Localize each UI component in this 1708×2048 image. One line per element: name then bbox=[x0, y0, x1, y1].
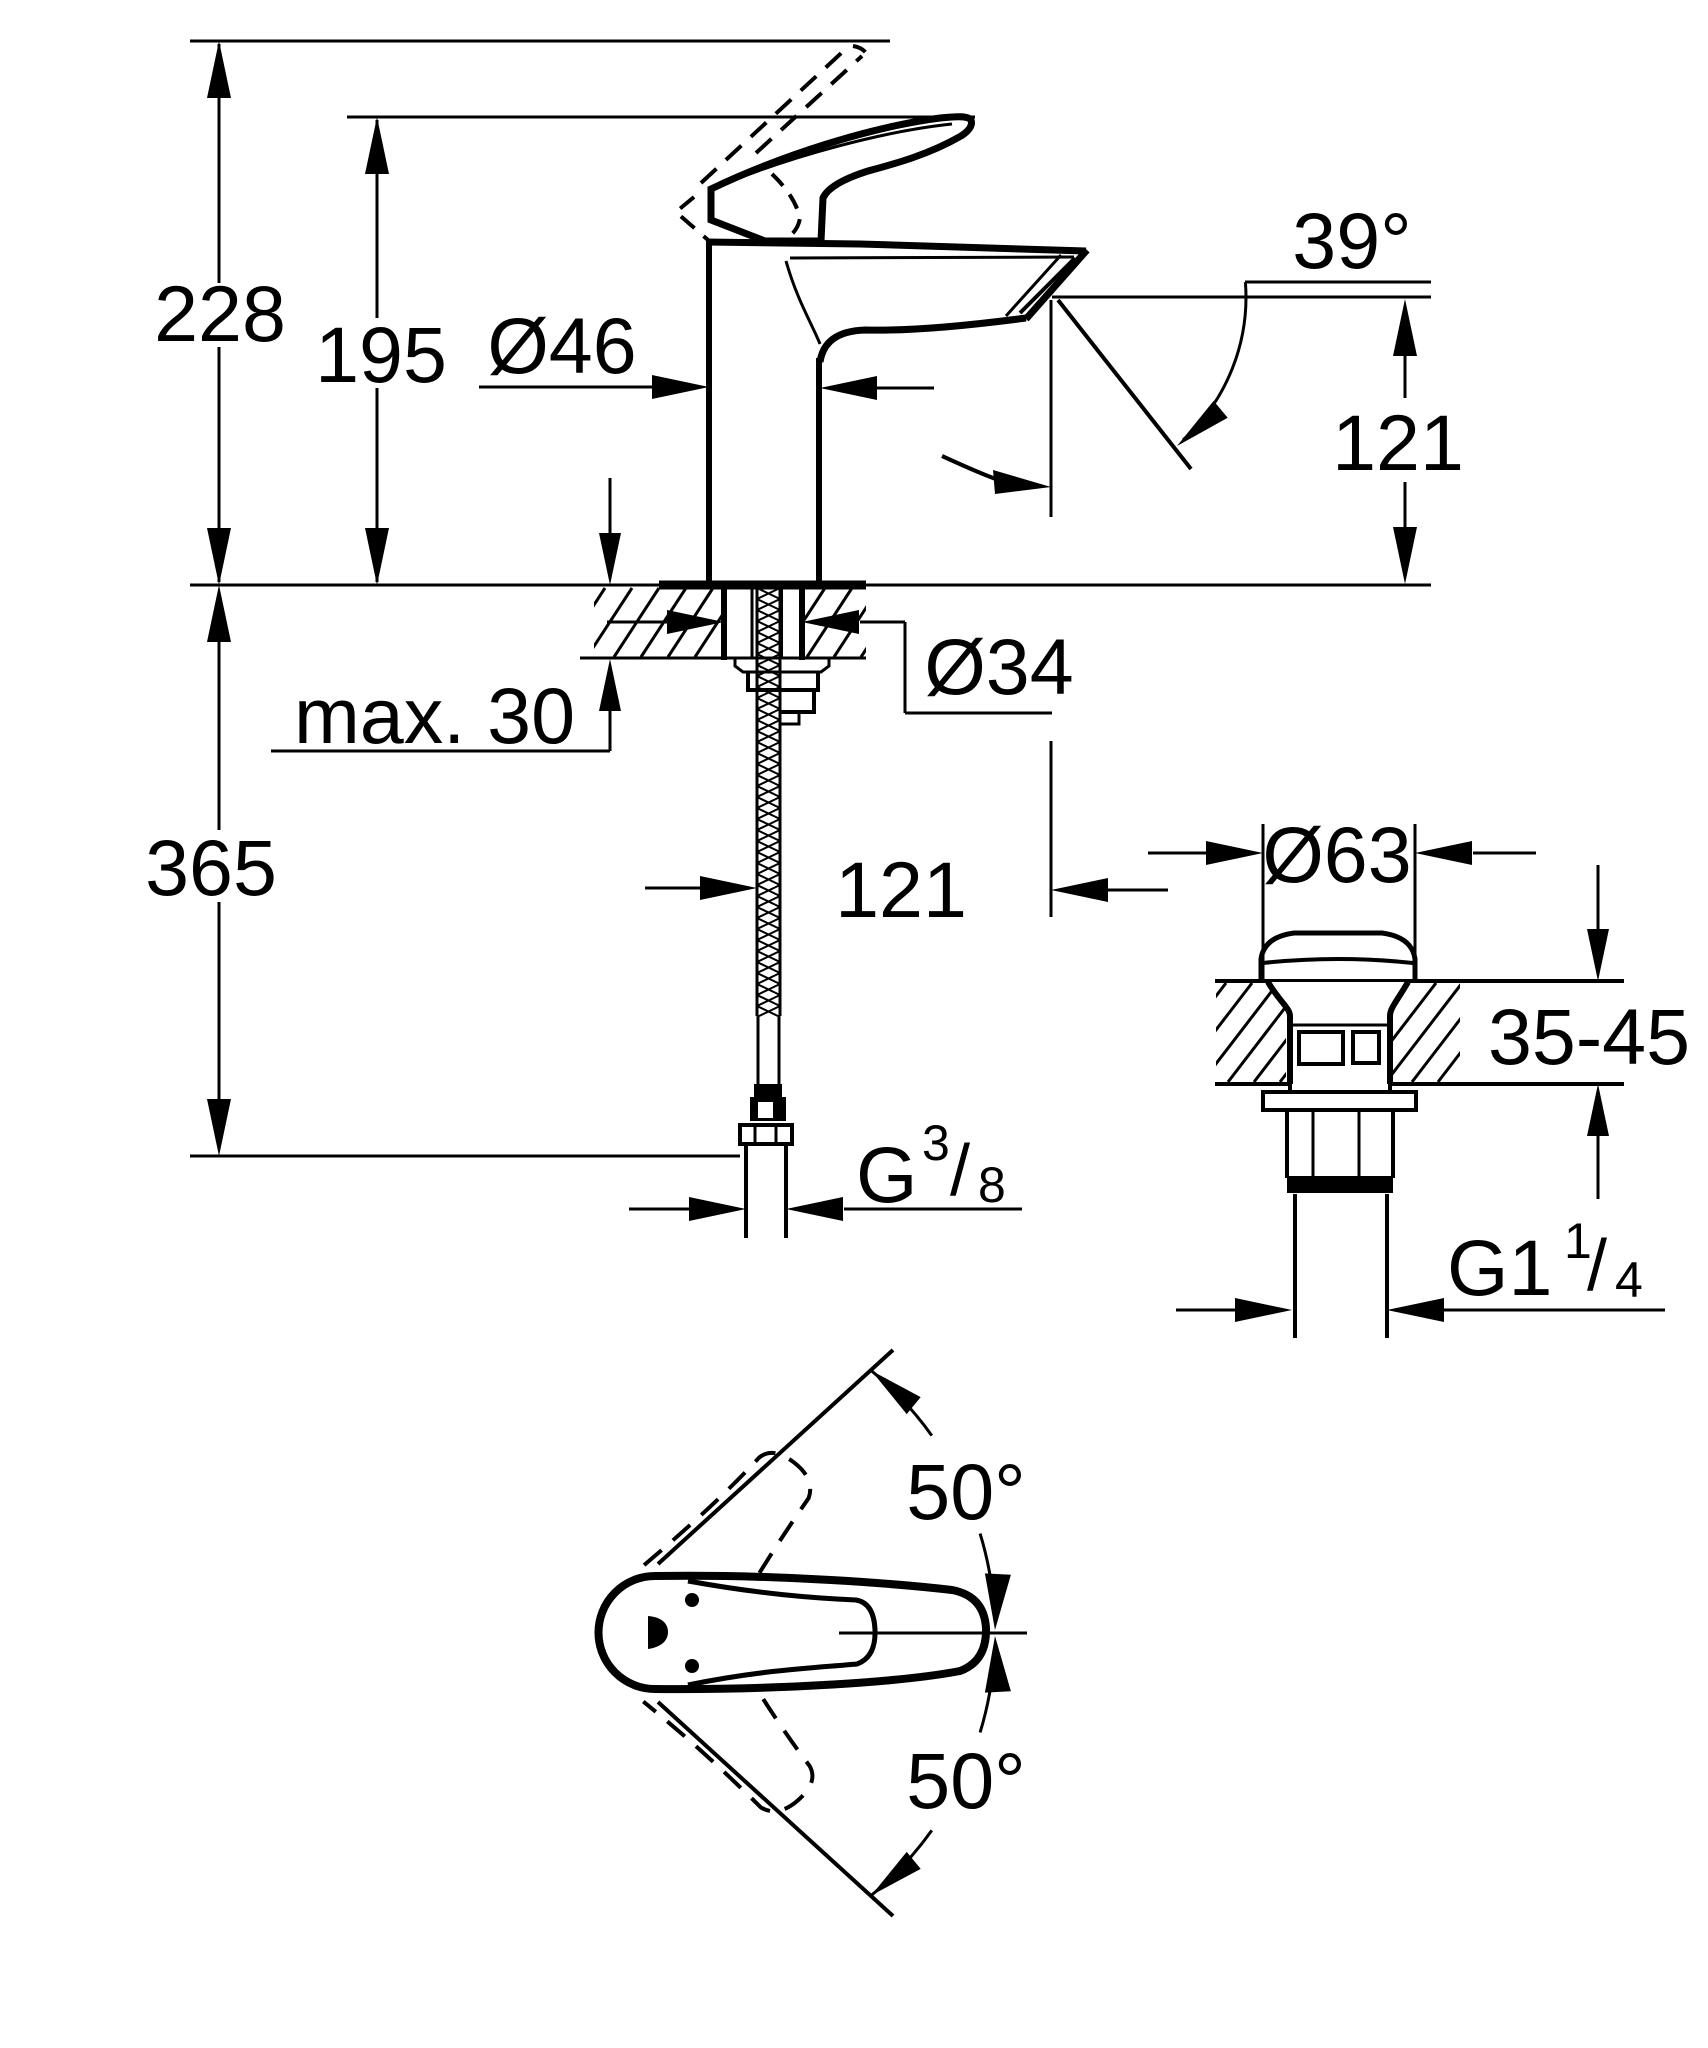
sink deck top line bbox=[1215, 979, 1624, 983]
label 195 bbox=[315, 310, 447, 399]
label O63 bbox=[1262, 810, 1411, 899]
counter hatching bbox=[560, 588, 906, 657]
flow arrow curve bbox=[942, 456, 1005, 482]
spout tip vertical reference line (upper) bbox=[1050, 300, 1053, 517]
label 121 vertical bbox=[1332, 398, 1464, 487]
mounting nut hardware bbox=[735, 659, 829, 724]
dimension 228 top reference line bbox=[190, 40, 890, 43]
label 39deg bbox=[1292, 196, 1411, 285]
flexible connection hose bbox=[740, 588, 792, 1238]
svg-text:50°: 50° bbox=[906, 1736, 1025, 1825]
dimension O46 arrows bbox=[479, 375, 934, 400]
dimension 121 vertical bbox=[1393, 299, 1417, 584]
spout angle diagonal line bbox=[1058, 300, 1191, 469]
50deg upper boundary line bbox=[658, 1350, 893, 1564]
label max30 bbox=[294, 671, 575, 760]
label 365 bbox=[145, 823, 277, 912]
handle detail D-mark bbox=[648, 1616, 668, 1649]
drain locknut and tailpipe bbox=[1263, 1084, 1416, 1338]
drain body bbox=[1268, 982, 1408, 1092]
dimension 35-45 bbox=[1587, 865, 1609, 1199]
counter underside line bbox=[580, 657, 866, 660]
label 50deg upper bbox=[906, 1447, 1025, 1536]
handle top view outline bbox=[599, 1576, 987, 1689]
dimension 228 bbox=[207, 41, 231, 585]
faucet body and spout bbox=[706, 242, 1087, 585]
shank width arrows bbox=[607, 610, 905, 634]
svg-text:Ø46: Ø46 bbox=[487, 301, 636, 390]
label 35-45 bbox=[1488, 992, 1690, 1081]
svg-text:G1: G1 bbox=[1447, 1223, 1552, 1312]
spout tip vertical reference line (lower) bbox=[1050, 741, 1053, 917]
mounting shank bbox=[724, 585, 802, 660]
O34 leader bbox=[905, 622, 1052, 713]
dimension G1 1/4 arrows bbox=[1176, 1298, 1665, 1322]
dimension G3/8 arrows bbox=[629, 1197, 1022, 1221]
svg-text:3: 3 bbox=[922, 1115, 950, 1171]
svg-text:195: 195 bbox=[315, 310, 447, 399]
handle raised position rear edge (dashed) bbox=[772, 174, 800, 239]
sink deck bottom line bbox=[1215, 1082, 1624, 1086]
faucet base thick seat bbox=[659, 581, 866, 590]
handle centerline bbox=[839, 1632, 1027, 1635]
39 deg lower horizontal / 121 top extension line bbox=[1052, 296, 1431, 299]
svg-text:Ø34: Ø34 bbox=[924, 622, 1073, 711]
sink deck hatching bbox=[1150, 983, 1540, 1082]
label 50deg lower bbox=[906, 1736, 1025, 1825]
handle lever (side view) bbox=[711, 117, 972, 241]
svg-text:4: 4 bbox=[1615, 1252, 1643, 1308]
label G3/8 bbox=[856, 1115, 1006, 1219]
svg-text:max. 30: max. 30 bbox=[294, 671, 575, 760]
label O46 bbox=[487, 301, 636, 390]
label O34 bbox=[924, 622, 1073, 711]
flow arrowhead bbox=[993, 470, 1051, 494]
50deg lower boundary line bbox=[658, 1702, 893, 1916]
39 deg arc bbox=[1183, 282, 1246, 440]
handle raised position (dashed, side view) bbox=[676, 45, 870, 240]
dimension 195 reference line bbox=[347, 116, 975, 119]
dimension 365 bbox=[207, 585, 231, 1156]
label 121 horizontal bbox=[835, 845, 967, 934]
handle top-view rotated positions (dashed) bbox=[643, 1431, 837, 1836]
drain pop-up dome cap bbox=[1261, 933, 1415, 981]
svg-text:/: / bbox=[950, 1131, 970, 1211]
50deg lower arc bbox=[871, 1636, 1011, 1895]
39 deg arc arrowhead bbox=[1177, 401, 1228, 446]
svg-text:35-45: 35-45 bbox=[1488, 992, 1690, 1081]
max 30 dimension bbox=[271, 478, 621, 751]
svg-text:/: / bbox=[1587, 1226, 1607, 1306]
svg-text:Ø63: Ø63 bbox=[1262, 810, 1411, 899]
svg-text:39°: 39° bbox=[1292, 196, 1411, 285]
svg-text:G: G bbox=[856, 1130, 917, 1219]
svg-text:50°: 50° bbox=[906, 1447, 1025, 1536]
svg-text:121: 121 bbox=[835, 845, 967, 934]
svg-text:228: 228 bbox=[154, 269, 286, 358]
dimension 195 bbox=[365, 117, 389, 585]
label 228 bbox=[154, 269, 286, 358]
dimension 121 horizontal bbox=[645, 876, 1168, 902]
39 deg upper horizontal line bbox=[1245, 281, 1431, 284]
handle detail dots bbox=[685, 1593, 699, 1673]
dimension O63 bbox=[1148, 824, 1536, 983]
counter top line bbox=[190, 584, 1431, 587]
svg-text:8: 8 bbox=[978, 1157, 1006, 1213]
365 bottom reference line bbox=[190, 1155, 740, 1158]
label G1 1/4 bbox=[1447, 1213, 1643, 1312]
svg-text:365: 365 bbox=[145, 823, 277, 912]
svg-text:121: 121 bbox=[1332, 398, 1464, 487]
50deg upper arc bbox=[871, 1371, 1011, 1630]
